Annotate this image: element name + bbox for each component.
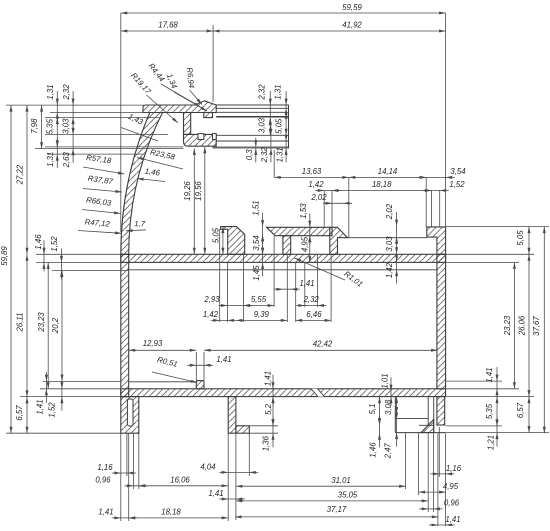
svg-text:1,21: 1,21 — [486, 435, 495, 450]
svg-text:1,16: 1,16 — [446, 464, 462, 473]
svg-text:1,41: 1,41 — [485, 367, 494, 382]
dimension: overall width 59,59 — [121, 12, 446, 14]
mid horizontal wall — [121, 254, 446, 262]
svg-text:1,36: 1,36 — [262, 435, 271, 451]
svg-text:1,45: 1,45 — [252, 265, 261, 281]
leader R4,44 — [161, 84, 201, 107]
svg-text:1,31: 1,31 — [273, 84, 282, 99]
top wall upper flange with tip — [143, 101, 216, 113]
svg-text:5,35: 5,35 — [46, 118, 55, 134]
svg-text:1,7: 1,7 — [134, 219, 146, 228]
leader R37,87 — [83, 189, 122, 193]
svg-text:1,52: 1,52 — [449, 180, 465, 189]
svg-text:0,96: 0,96 — [95, 476, 111, 485]
mid-wall protrusion A — [221, 227, 245, 255]
svg-text:19,56: 19,56 — [194, 181, 203, 201]
svg-text:59,89: 59,89 — [0, 246, 9, 266]
svg-text:6,57: 6,57 — [15, 405, 24, 421]
leader R19,17 — [147, 95, 179, 123]
bottom dimension rows — [112, 472, 136, 474]
svg-text:37,17: 37,17 — [327, 505, 347, 514]
leader R0,51 — [152, 372, 197, 383]
svg-text:1,42: 1,42 — [385, 262, 394, 278]
svg-text:42,42: 42,42 — [313, 339, 333, 348]
thin slot lip lines (top wall right portion) — [216, 104, 288, 106]
svg-text:3,54: 3,54 — [450, 167, 466, 176]
svg-text:1,42: 1,42 — [203, 310, 219, 319]
bottom-right box outline — [394, 397, 396, 433]
thin ledge line — [129, 381, 197, 383]
svg-text:9,39: 9,39 — [254, 310, 270, 319]
svg-text:3,03: 3,03 — [257, 117, 266, 133]
svg-text:1,42: 1,42 — [308, 180, 324, 189]
svg-text:26,06: 26,06 — [517, 315, 526, 336]
left vertical wall — [121, 254, 129, 396]
svg-text:1,51: 1,51 — [251, 200, 260, 215]
svg-text:7,98: 7,98 — [30, 118, 39, 134]
svg-text:0,3: 0,3 — [245, 149, 254, 161]
strip B — [267, 227, 333, 235]
left curved wall (arc) — [121, 113, 163, 255]
svg-text:31,01: 31,01 — [331, 476, 351, 485]
svg-text:18,18: 18,18 — [372, 180, 392, 189]
svg-text:20,2: 20,2 — [51, 317, 60, 334]
ledge line — [348, 237, 427, 239]
svg-text:0,96: 0,96 — [444, 499, 460, 508]
dimension 41,92 — [213, 30, 446, 32]
leader 1,43 — [121, 128, 158, 142]
svg-text:5,05: 5,05 — [212, 227, 221, 243]
svg-text:1,01: 1,01 — [380, 373, 389, 388]
leader R66,03 — [82, 210, 121, 214]
svg-text:1,41: 1,41 — [445, 515, 460, 524]
svg-text:1,41: 1,41 — [264, 371, 273, 386]
bottom center vertical dimensions — [272, 375, 274, 406]
top-right L-block — [427, 227, 446, 254]
leader 1,7 — [126, 230, 146, 231]
extension lines — [120, 13, 122, 232]
svg-text:1,46: 1,46 — [34, 234, 43, 250]
mid wall lower lip line — [129, 269, 438, 271]
svg-text:2,32: 2,32 — [303, 295, 320, 304]
svg-text:1,52: 1,52 — [50, 236, 59, 252]
svg-text:5,2: 5,2 — [264, 403, 273, 415]
leader R1,01 — [295, 258, 346, 280]
svg-text:1,41: 1,41 — [216, 355, 231, 364]
mid dimensions — [274, 288, 300, 290]
strip B support wall — [283, 236, 291, 255]
svg-text:5,55: 5,55 — [251, 295, 267, 304]
svg-text:1,41: 1,41 — [98, 508, 113, 517]
svg-text:23,23: 23,23 — [37, 312, 46, 333]
svg-text:1,41: 1,41 — [208, 489, 223, 498]
svg-text:23,23: 23,23 — [503, 315, 512, 336]
svg-text:3,03: 3,03 — [385, 236, 394, 252]
svg-text:1,41: 1,41 — [299, 279, 314, 288]
svg-text:3,03: 3,03 — [61, 118, 70, 134]
right vertical dimensions — [496, 367, 498, 398]
dimension 17,68 — [121, 30, 213, 32]
slot right wall with chamfer — [330, 227, 348, 254]
svg-text:1,52: 1,52 — [48, 402, 57, 418]
svg-text:1,41: 1,41 — [35, 399, 44, 414]
svg-text:5,05: 5,05 — [516, 230, 525, 246]
svg-text:1,16: 1,16 — [97, 463, 113, 472]
bottom T-wall — [228, 397, 236, 434]
top slot small dimensions — [269, 91, 271, 127]
svg-text:1,53: 1,53 — [299, 203, 308, 219]
svg-text:2,02: 2,02 — [385, 203, 394, 220]
leader R6,94 — [190, 90, 203, 105]
svg-text:5,1: 5,1 — [368, 404, 377, 415]
svg-text:18,18: 18,18 — [161, 508, 181, 517]
svg-text:12,93: 12,93 — [143, 339, 163, 348]
bottom T-wall foot — [236, 426, 249, 433]
bottom wall break notch — [311, 389, 325, 397]
center vertical dimensions — [193, 148, 195, 254]
svg-text:37,67: 37,67 — [532, 316, 541, 336]
lower flange notch — [198, 134, 204, 140]
svg-text:27,22: 27,22 — [16, 164, 25, 185]
svg-text:5,05: 5,05 — [274, 118, 283, 134]
leader R57,18 — [83, 167, 125, 174]
svg-text:2,32: 2,32 — [258, 84, 267, 101]
svg-text:1,31: 1,31 — [46, 84, 55, 99]
bottom-left screw slot — [127, 399, 133, 426]
leader 1,46 — [137, 179, 165, 182]
svg-text:59,59: 59,59 — [342, 3, 362, 12]
svg-text:1,31: 1,31 — [275, 147, 284, 162]
svg-text:2,47: 2,47 — [384, 443, 393, 460]
svg-text:16,06: 16,06 — [170, 476, 190, 485]
right vertical wall — [437, 254, 446, 388]
top-right dimension rows — [274, 176, 349, 178]
bottom-right wall strip — [437, 397, 445, 425]
svg-text:14,14: 14,14 — [378, 167, 398, 176]
bottom-right chamfer foot — [421, 420, 434, 433]
svg-text:1,31: 1,31 — [46, 152, 55, 167]
small rib R0,51 on bottom wall — [196, 381, 204, 389]
svg-text:17,68: 17,68 — [158, 21, 178, 30]
svg-text:4,95: 4,95 — [300, 236, 309, 252]
svg-text:2,02: 2,02 — [310, 193, 327, 202]
svg-text:13,63: 13,63 — [302, 167, 322, 176]
leader 1,34 — [174, 92, 207, 111]
svg-text:1,46: 1,46 — [369, 442, 378, 458]
svg-text:2,32: 2,32 — [62, 84, 71, 101]
svg-text:19,26: 19,26 — [183, 181, 192, 201]
svg-text:4,95: 4,95 — [443, 482, 459, 491]
svg-text:2,93: 2,93 — [203, 295, 220, 304]
svg-text:3,54: 3,54 — [252, 235, 261, 251]
leader R23,58 — [137, 158, 183, 170]
svg-text:2,63: 2,63 — [62, 152, 71, 169]
left vertical dimensions — [10, 105, 12, 433]
svg-text:5,35: 5,35 — [485, 403, 494, 419]
svg-text:6,46: 6,46 — [306, 310, 322, 319]
bottom horizontal wall — [121, 389, 446, 397]
svg-text:26,11: 26,11 — [16, 313, 25, 333]
left top stack dimensions — [41, 105, 43, 149]
svg-text:6,57: 6,57 — [516, 402, 525, 418]
right closure edge of slot lips — [288, 105, 290, 148]
svg-text:4,04: 4,04 — [200, 462, 216, 471]
top wall lower flange — [184, 134, 217, 146]
top wall vertical web — [184, 113, 191, 135]
svg-text:2,32: 2,32 — [260, 147, 269, 164]
svg-text:41,92: 41,92 — [342, 21, 362, 30]
leader R47,12 — [78, 231, 122, 234]
upper flange tooth — [204, 113, 213, 118]
lower flange end notch — [213, 134, 217, 140]
svg-text:35,05: 35,05 — [338, 491, 358, 500]
bottom-left wall assembly — [121, 397, 139, 434]
